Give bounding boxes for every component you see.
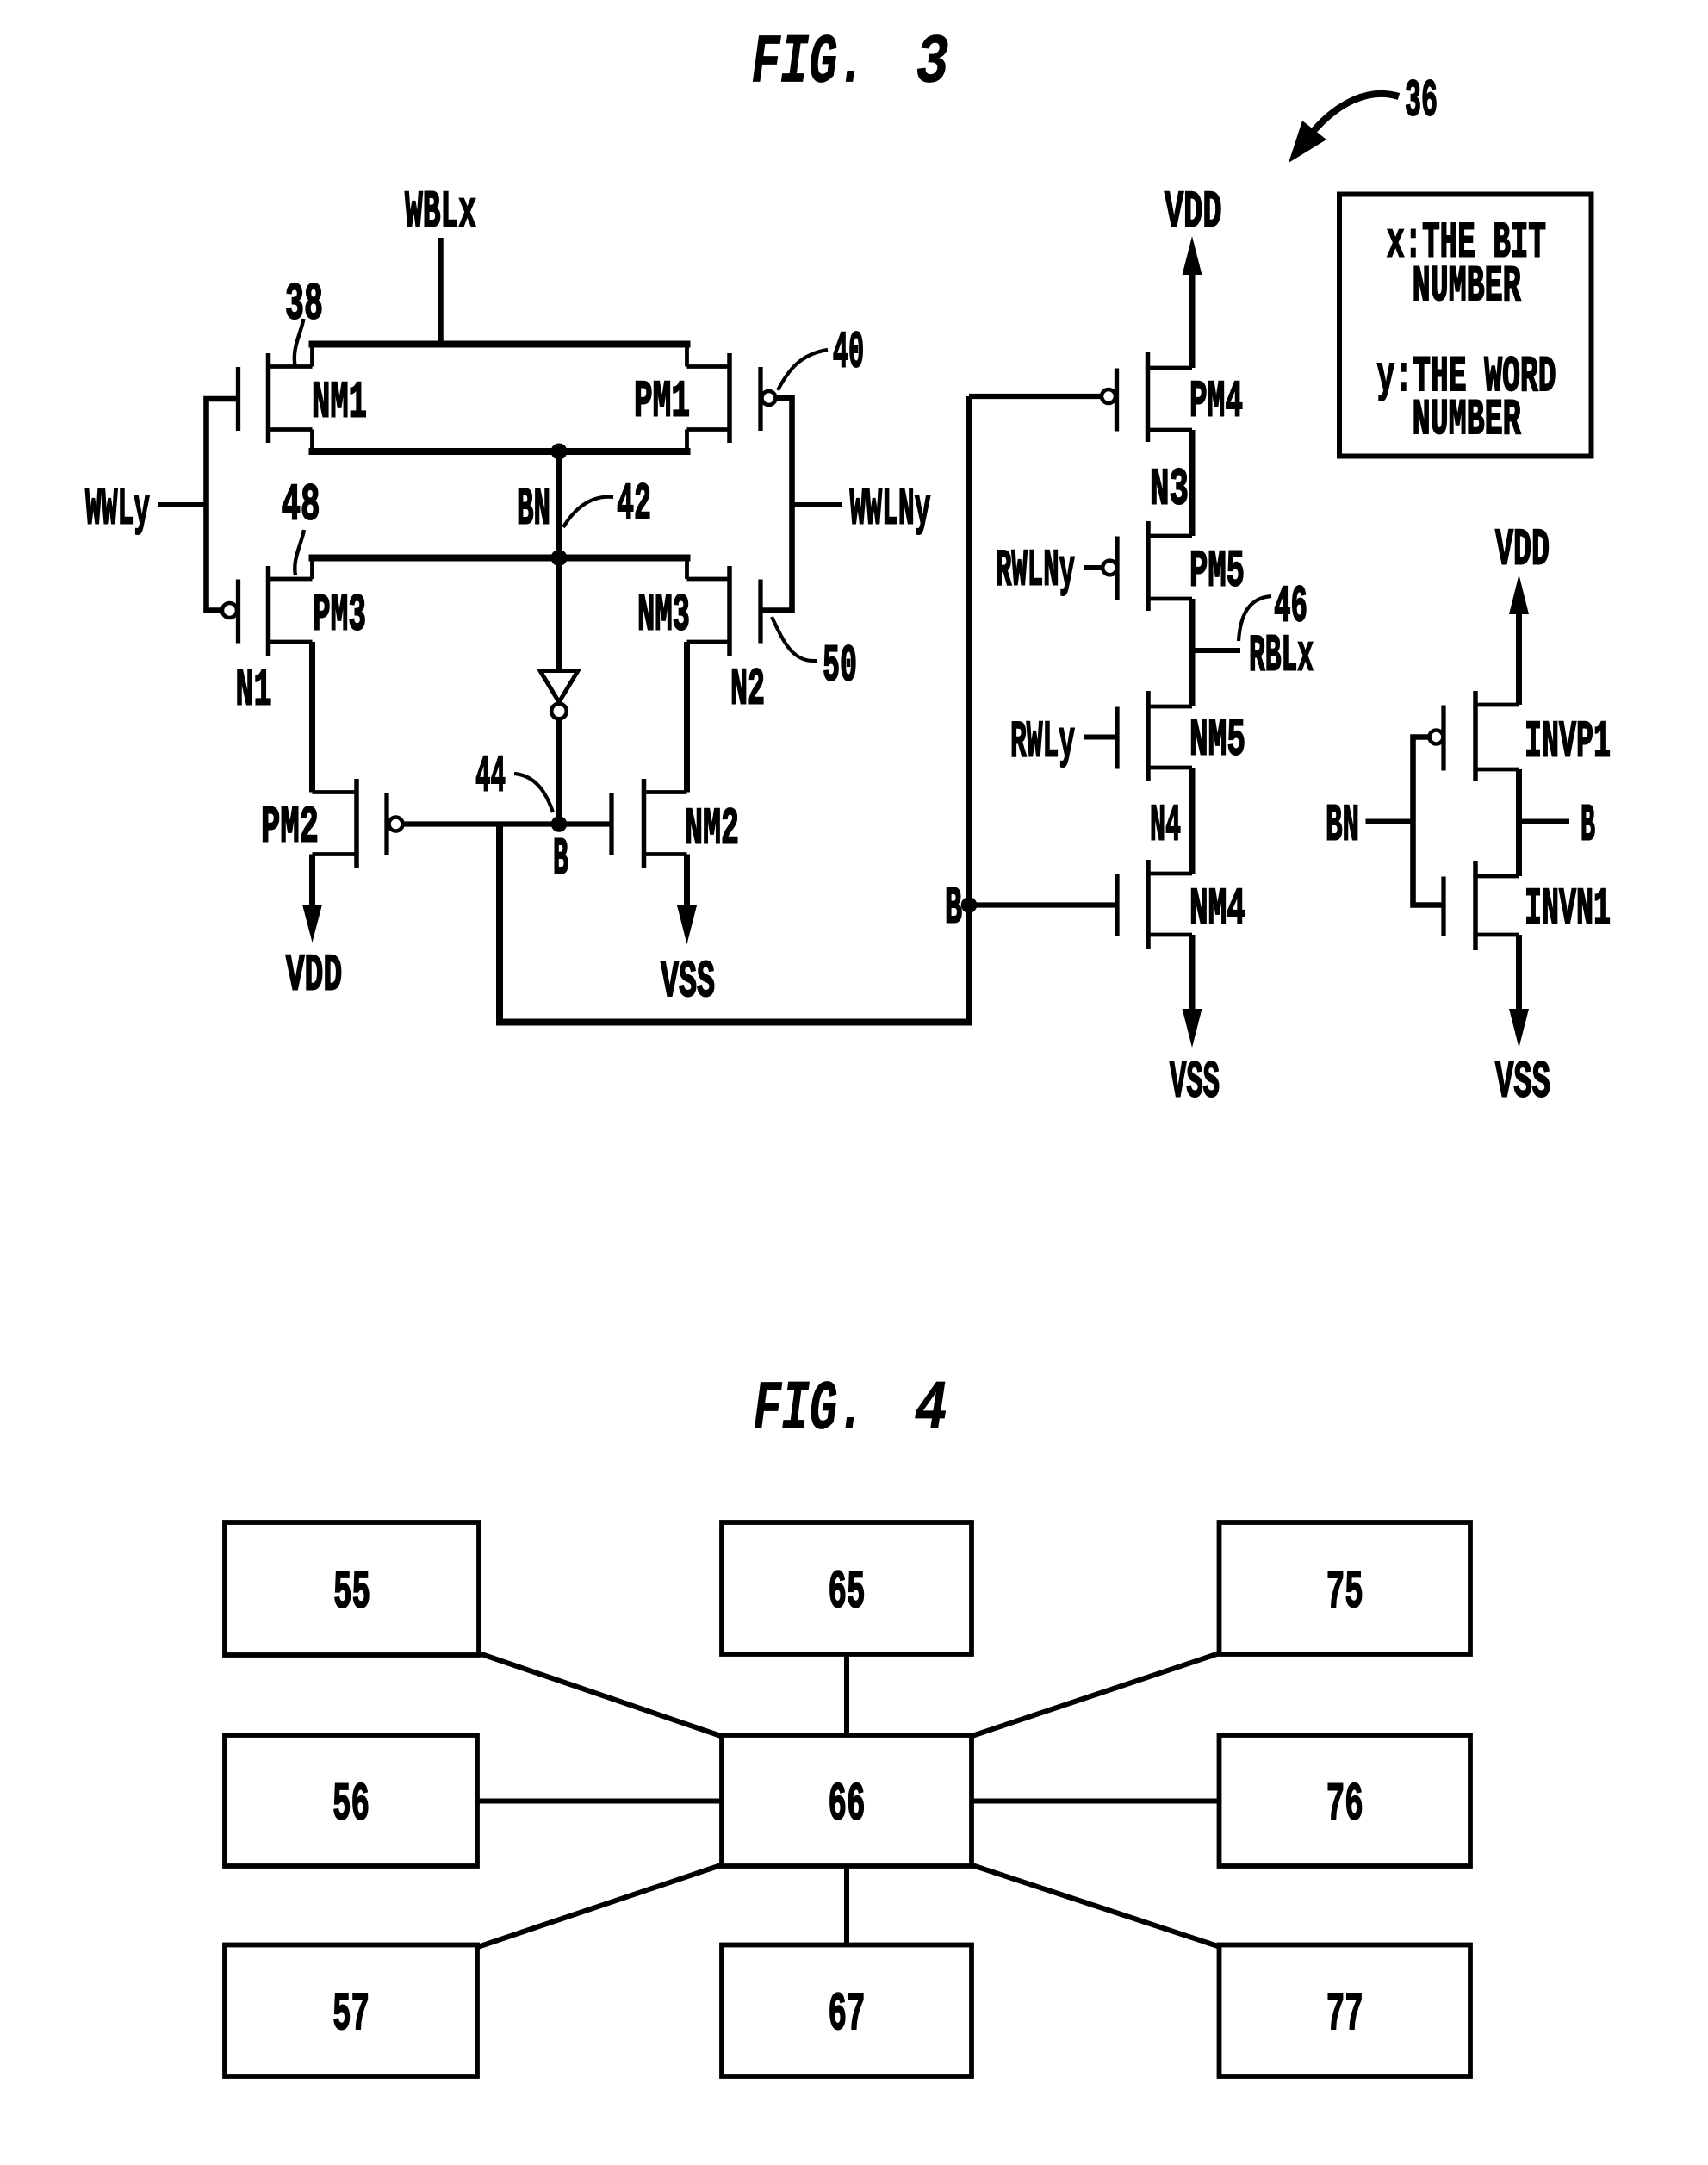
block 77 [1220,1945,1471,2077]
VSS label (read stack) [1170,1054,1220,1112]
wire BN lead [1366,819,1413,824]
svg-text:N2: N2 [730,661,765,719]
wire RWLNy lead [1084,565,1102,570]
svg-text:FIG.: FIG. [752,24,866,103]
figure title FIG. 4 [754,1372,947,1450]
net RWLNy label [996,542,1075,600]
inverter 44 triangle [540,671,578,703]
svg-text:INVN1: INVN1 [1525,880,1611,939]
VDD arrow (inverter) [1509,575,1529,705]
svg-text:38: 38 [285,276,323,334]
reference numeral 50 [823,638,857,696]
svg-text:BN: BN [517,481,550,539]
inverter 44 output bubble [551,704,567,719]
svg-text:67: 67 [829,1984,866,2045]
svg-text:PM4: PM4 [1189,373,1243,432]
wire WWLNy lead [792,502,843,507]
svg-text:NUMBER: NUMBER [1413,393,1521,449]
net WWLy label [85,481,150,539]
link 67-66 [844,1866,849,1945]
block 66 [722,1735,972,1866]
svg-text:46: 46 [1274,578,1307,637]
svg-text:B: B [1581,797,1595,855]
block 67 [722,1945,972,2077]
VDD label (inverter) [1495,521,1550,580]
svg-text:WWLNy: WWLNy [850,481,931,539]
svg-text:66: 66 [829,1774,866,1835]
svg-text:NM4: NM4 [1189,880,1245,939]
block 65 [722,1522,972,1654]
svg-text:INVP1: INVP1 [1525,713,1611,772]
block 76 [1220,1735,1471,1866]
leader to 46 [1239,596,1271,641]
wire RBLx lead [1192,648,1240,653]
reference numeral 46 [1274,578,1307,637]
reference numeral 40 [833,324,865,383]
link 76-66 [972,1799,1220,1804]
leader to 42 [563,497,613,527]
VSS label (write cell) [661,954,715,1012]
svg-text:VDD: VDD [1165,184,1222,242]
leader to 44 [514,774,553,812]
svg-text:VDD: VDD [286,947,343,1005]
wire PM4 gate from B bus [969,394,1102,399]
svg-text:PM3: PM3 [313,587,366,645]
transistor PM5 [1102,521,1245,611]
transistor PM4 [1102,352,1243,442]
svg-text:3: 3 [916,24,949,103]
node label BN [517,481,550,539]
node label N2 [730,661,765,719]
wire node N3 [1189,430,1196,536]
net BN label (inverter input) [1326,797,1359,855]
VDD label (read stack) [1165,184,1222,242]
svg-text:NM3: NM3 [637,587,690,645]
wire PM5 to NM5 with RBLx tap [1189,599,1196,706]
leader to 50 [772,617,817,661]
svg-text:BN: BN [1326,797,1359,855]
svg-text:RWLNy: RWLNy [996,542,1075,600]
reference numeral 48 [282,476,320,535]
wire NM4 gate from node B [969,902,1117,907]
reference numeral 36 [1405,72,1438,131]
svg-text:36: 36 [1405,72,1438,131]
wire node N1 [309,642,315,793]
svg-text:NM2: NM2 [685,800,739,859]
svg-text:VDD: VDD [1495,521,1550,580]
transistor INVN1 [1444,861,1611,950]
svg-text:NM1: NM1 [312,374,367,432]
VSS arrow (write cell) [677,855,697,945]
transistor NM5 [1117,691,1245,781]
node label N1 [236,662,272,720]
svg-text:56: 56 [332,1774,370,1835]
wire WBLx drop [438,238,444,345]
svg-text:44: 44 [475,748,506,806]
svg-text:N3: N3 [1150,461,1189,519]
reference numeral 44 [475,748,506,806]
wire rail of PM3/NM3 with BN junction [309,550,691,579]
transistor NM2 [612,779,739,868]
node B junction on bus [961,897,978,913]
wire PM2/NM2 gate line [403,821,612,826]
link 55-66 [479,1653,724,1737]
svg-text:57: 57 [332,1984,370,2045]
wire node B bus to read stack [500,396,969,1023]
node label B (inverter output) [1581,797,1595,855]
VSS arrow (inverter) [1509,935,1529,1048]
wire inverter output to node B [551,719,568,832]
VSS arrow (read stack) [1183,935,1202,1048]
svg-text:FIG.: FIG. [754,1372,866,1450]
wire RWLy lead [1084,735,1117,740]
svg-text:B: B [945,880,962,938]
transistor PM3 [222,566,366,656]
svg-text:N1: N1 [236,662,272,720]
svg-text:VSS: VSS [661,954,715,1012]
leader arrow to 36 [1289,94,1399,163]
transistor NM4 [1117,860,1245,949]
svg-text:N4: N4 [1150,797,1181,855]
wire node N4 [1189,768,1196,874]
wire node BN vertical [556,451,562,558]
wire node N2 [684,642,690,793]
net RWLy label [1010,713,1075,772]
svg-text:65: 65 [829,1562,866,1623]
svg-text:NUMBER: NUMBER [1413,259,1521,315]
node label B (write) [553,831,568,889]
link 65-66 [844,1654,849,1735]
transistor PM2 [261,779,403,868]
leader to 38 [295,319,304,365]
svg-text:4: 4 [915,1372,947,1450]
svg-text:50: 50 [823,638,857,696]
wire WWLy lead [158,502,207,507]
leader to 40 [778,350,828,390]
VDD arrow (read stack) [1183,236,1202,368]
svg-text:VSS: VSS [1170,1054,1220,1112]
wire inverter gate trunk [1413,737,1444,905]
reference numeral 42 [617,476,651,534]
wire top rail (NM1/PM1 drains) [309,345,691,367]
legend box [1339,195,1592,457]
transistor NM1 [239,353,368,443]
svg-text:WWLy: WWLy [85,481,150,539]
node label N4 [1150,797,1181,855]
link 77-66 [970,1864,1220,1947]
svg-text:77: 77 [1326,1984,1363,2045]
transistor INVP1 [1430,691,1612,781]
block 56 [225,1735,477,1866]
wire BN to inverter 44 [556,558,562,672]
svg-text:VSS: VSS [1495,1054,1550,1112]
svg-text:PM2: PM2 [261,799,319,857]
svg-text:75: 75 [1326,1562,1363,1623]
VDD label (write cell) [286,947,343,1005]
net WBLx label [405,184,476,243]
svg-text:PM1: PM1 [634,373,690,432]
svg-text:B: B [553,831,568,889]
block 57 [225,1945,477,2077]
VDD arrow (write cell) [302,855,322,943]
figure title FIG. 3 [752,24,949,103]
net RBLx label [1249,627,1314,686]
block 55 [225,1522,479,1655]
svg-text:WBLx: WBLx [405,184,476,243]
wire bottom rail of NM1/PM1 with BN junction [309,430,691,460]
node label N3 [1150,461,1189,519]
transistor PM1 [634,353,776,443]
transistor NM3 [637,566,761,656]
svg-text:76: 76 [1326,1774,1363,1835]
VSS label (inverter) [1495,1054,1550,1112]
svg-text:55: 55 [333,1562,370,1623]
wire inverter output node B [1519,769,1570,876]
node label B (read) [945,880,962,938]
svg-text:RWLy: RWLy [1010,713,1075,772]
svg-text:48: 48 [282,476,320,535]
wire WWLy trunk to NM1/PM3 gates [207,399,239,611]
svg-text:42: 42 [617,476,651,534]
svg-text:NM5: NM5 [1189,712,1245,770]
link 57-66 [479,1864,724,1947]
reference numeral 38 [285,276,323,334]
wire WWLNy trunk to PM1/NM3 gates [761,398,792,611]
block 75 [1220,1522,1471,1654]
svg-text:40: 40 [833,324,865,383]
link 75-66 [970,1653,1220,1737]
link 56-66 [477,1799,722,1804]
leader to 48 [295,530,304,575]
net WWLNy label [850,481,931,539]
svg-text:PM5: PM5 [1189,543,1245,601]
